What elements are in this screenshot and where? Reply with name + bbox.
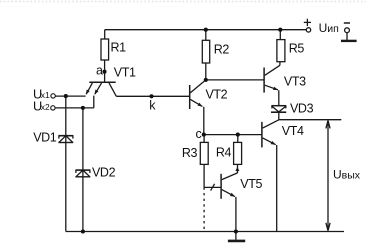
svg-text:VT3: VT3 [284,75,306,89]
svg-text:R2: R2 [214,42,230,56]
svg-text:R4: R4 [216,146,232,160]
svg-text:R1: R1 [111,41,127,55]
svg-text:a: a [96,64,103,78]
svg-text:VT5: VT5 [240,177,262,191]
svg-text:R5: R5 [289,42,305,56]
svg-text:VD1: VD1 [33,130,57,144]
svg-text:c: c [196,127,202,141]
svg-text:VT1: VT1 [114,66,136,80]
svg-text:VD3: VD3 [290,102,314,116]
svg-text:Uвых: Uвых [333,168,361,182]
svg-text:Uип: Uип [319,21,339,35]
svg-text:R3: R3 [182,146,198,160]
svg-text:VD2: VD2 [92,166,116,180]
svg-text:x2: x2 [41,102,50,112]
svg-text:VT2: VT2 [206,88,228,102]
svg-text:VT4: VT4 [282,124,304,138]
